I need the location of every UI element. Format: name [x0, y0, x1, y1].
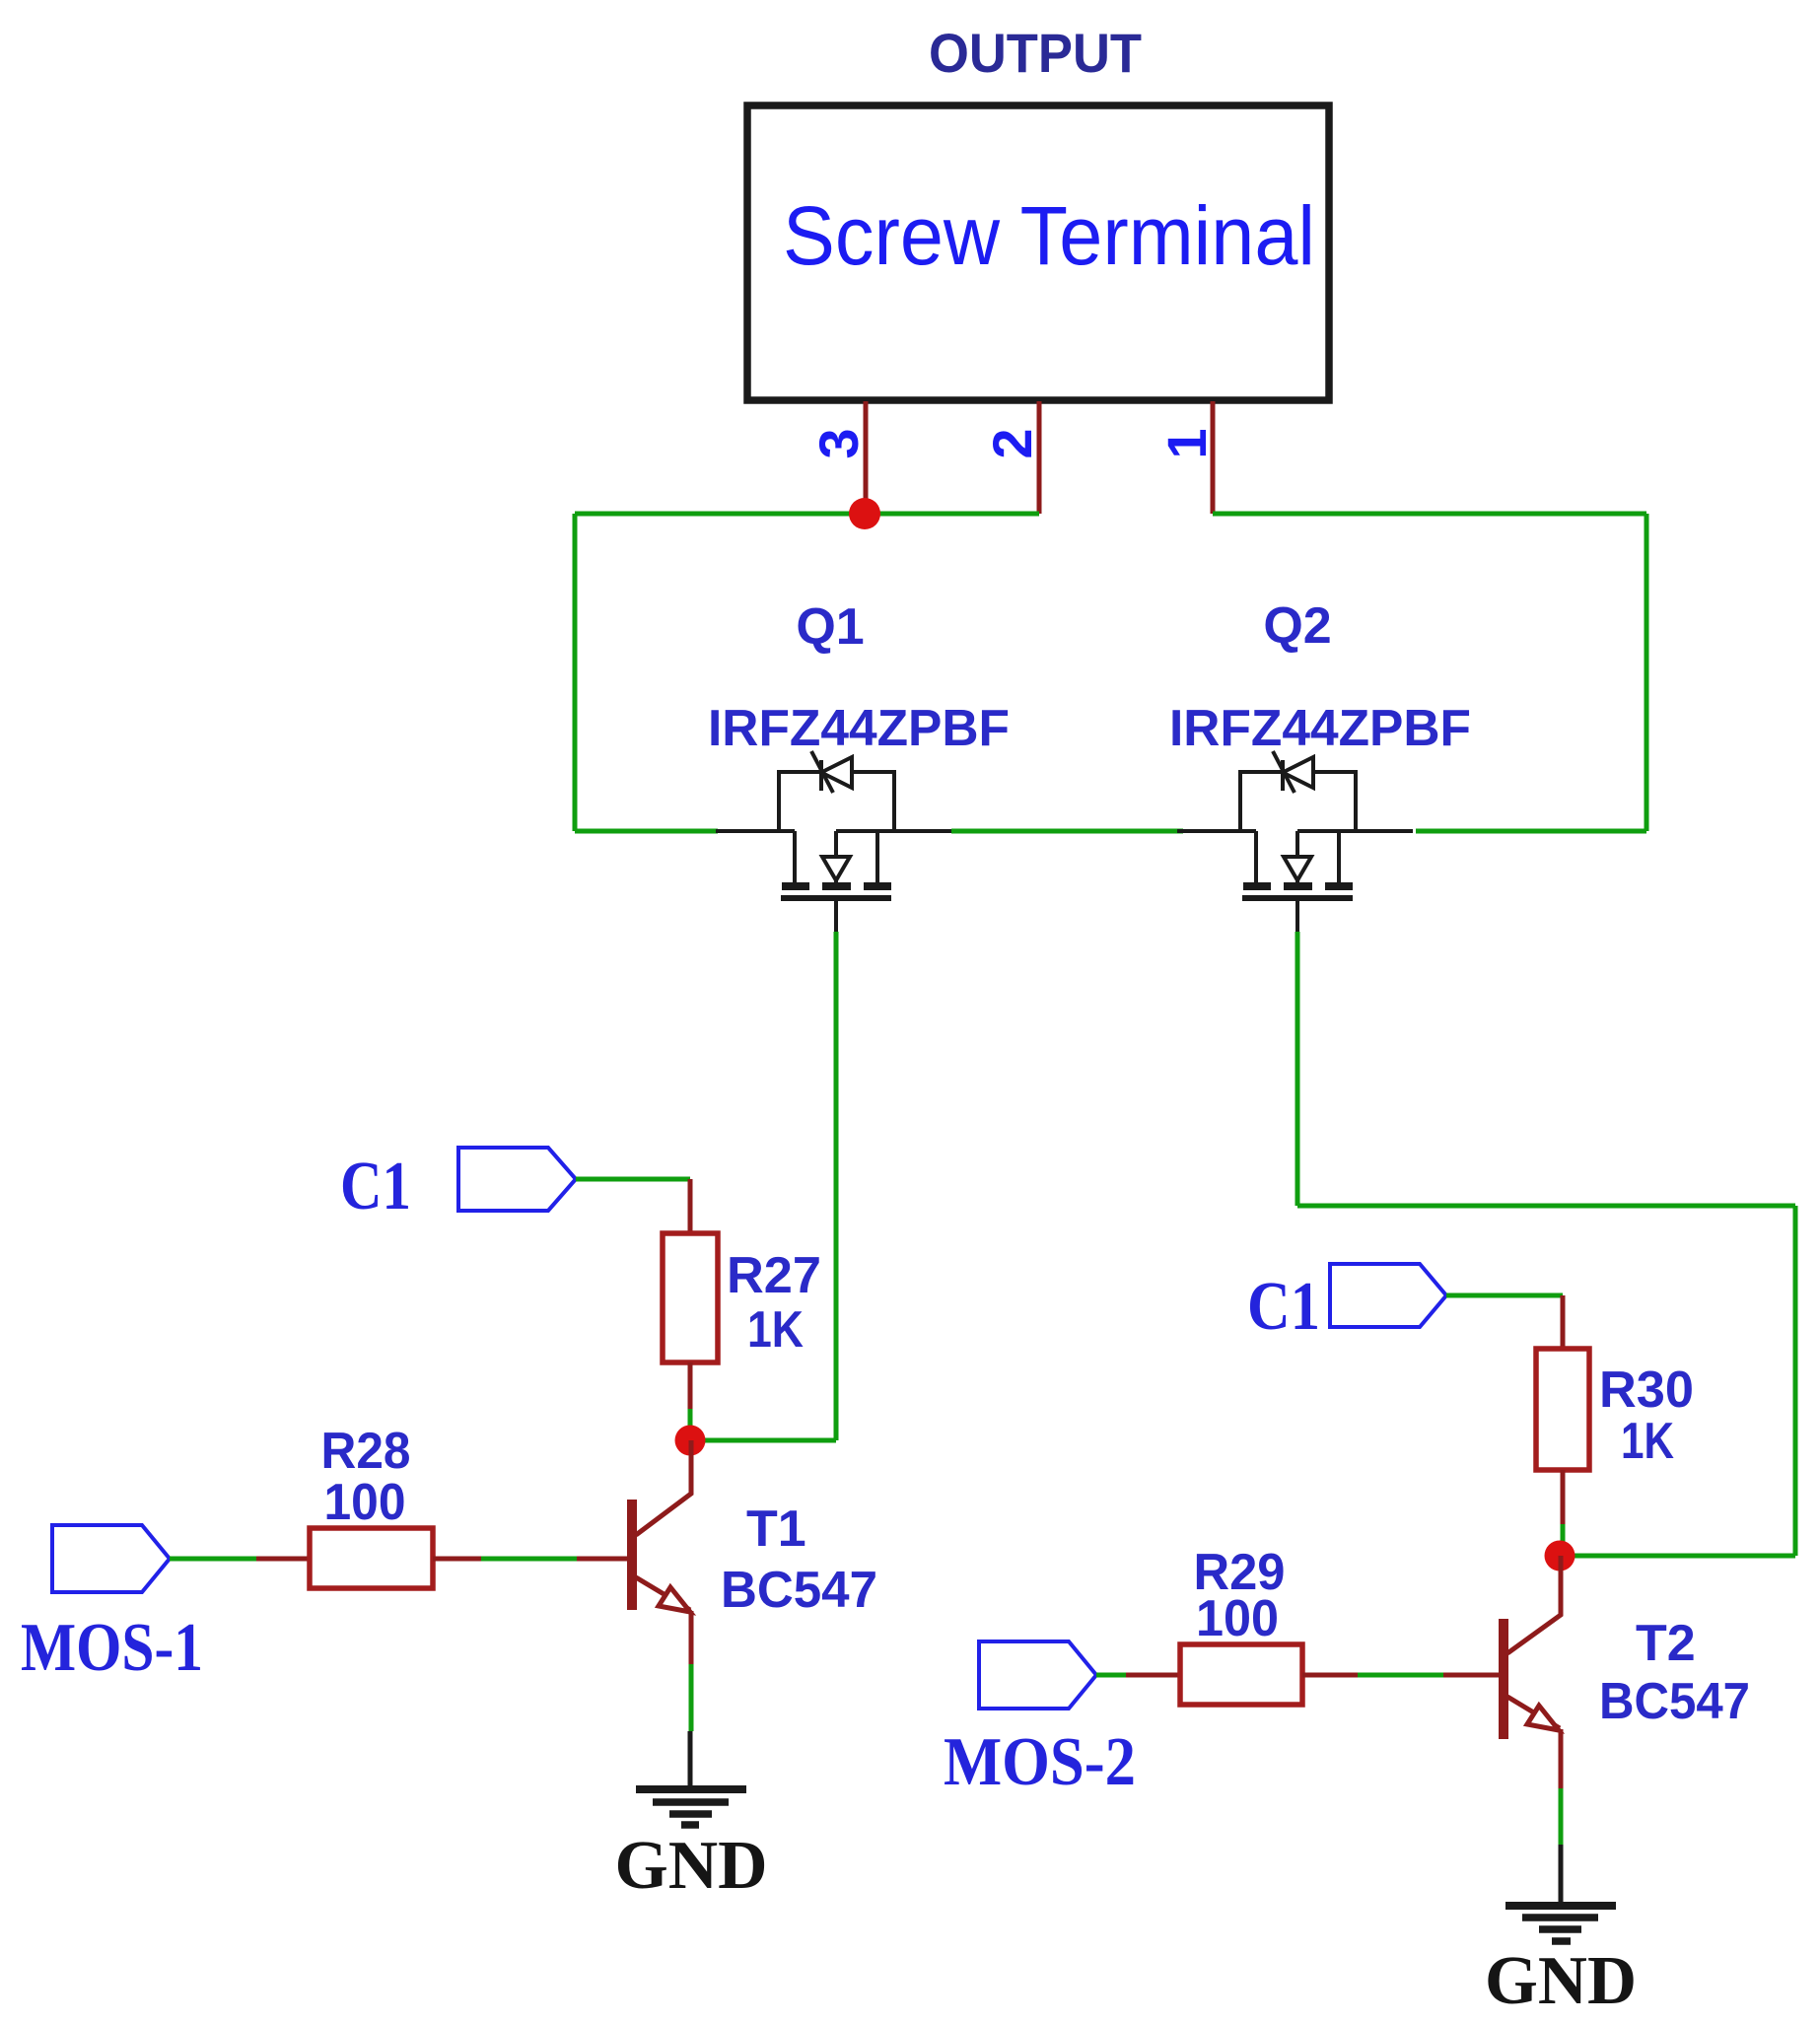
pin 2 wire [1037, 401, 1042, 514]
connector U3 Screw Terminal [747, 105, 1329, 400]
junction dot node B [1545, 1541, 1575, 1571]
svg-text:1K: 1K [747, 1301, 804, 1359]
svg-text:100: 100 [1196, 1590, 1279, 1647]
svg-text:OUTPUT: OUTPUT [929, 22, 1142, 84]
transistor T1 collector [636, 1440, 691, 1535]
wire Q1 gate to node A [834, 932, 839, 1440]
wire R29 to T2 base [1302, 1673, 1358, 1678]
svg-text:BC547: BC547 [721, 1562, 877, 1619]
flag MOS-1 [52, 1525, 170, 1592]
flag C1 right [1330, 1264, 1446, 1327]
svg-text:1K: 1K [1621, 1413, 1674, 1470]
transistor T1 base bar [627, 1500, 637, 1610]
wire T1 emitter to ground [689, 1664, 694, 1731]
ground GND right [1505, 1902, 1616, 1910]
svg-text:MOS-1: MOS-1 [21, 1610, 203, 1686]
mosfet Q1 [716, 751, 951, 932]
flag MOS-2 [979, 1641, 1096, 1709]
wire C1 to R30 [1446, 1293, 1563, 1298]
junction dot pins 2-3 [849, 498, 880, 529]
resistor R27 [663, 1233, 718, 1362]
svg-text:IRFZ44ZPBF: IRFZ44ZPBF [1169, 700, 1471, 757]
pin 1 wire [1211, 401, 1216, 514]
svg-text:GND: GND [1485, 1943, 1637, 2019]
svg-text:100: 100 [324, 1474, 406, 1531]
transistor T1 emitter [636, 1577, 690, 1610]
wire MOS-2 to R29 [1096, 1673, 1126, 1678]
ground GND left [636, 1785, 746, 1793]
resistor R28 [310, 1528, 433, 1588]
wire net pins2-3 to Q1 drain [575, 512, 1039, 517]
transistor T2 collector [1507, 1556, 1561, 1653]
resistor R30 [1536, 1349, 1589, 1470]
mosfet Q2 [1177, 751, 1413, 932]
svg-text:R28: R28 [321, 1423, 411, 1480]
svg-text:2: 2 [981, 428, 1043, 458]
wire Q1 source to Q2 drain [951, 829, 1183, 834]
wire pin1 to Q2 source [1213, 512, 1646, 517]
svg-text:C1: C1 [1247, 1269, 1320, 1345]
wire T2 emitter to ground [1559, 1788, 1564, 1845]
wire Q2 gate to node B [1295, 932, 1300, 1206]
wire R27 to node A [688, 1362, 693, 1409]
svg-text:MOS-2: MOS-2 [944, 1724, 1136, 1800]
svg-text:Q1: Q1 [796, 598, 864, 656]
junction dot node A [675, 1426, 706, 1456]
wire R28 to T1 base [433, 1557, 481, 1562]
svg-text:1: 1 [1155, 428, 1218, 458]
svg-text:R27: R27 [727, 1247, 821, 1304]
wire C1 to R27 [576, 1177, 690, 1182]
svg-text:T2: T2 [1636, 1615, 1696, 1672]
svg-text:Q2: Q2 [1263, 597, 1331, 655]
wire R30 to node B [1561, 1470, 1566, 1524]
transistor T2 emitter [1507, 1697, 1560, 1728]
flag C1 left [458, 1148, 576, 1211]
svg-text:GND: GND [615, 1828, 768, 1904]
svg-text:3: 3 [807, 428, 870, 458]
resistor R29 [1180, 1644, 1302, 1705]
pin 3 wire [864, 401, 869, 514]
svg-text:C1: C1 [340, 1149, 411, 1224]
svg-text:T1: T1 [746, 1501, 806, 1558]
wire MOS-1 to R28 [170, 1557, 256, 1562]
svg-text:Screw Terminal: Screw Terminal [783, 189, 1315, 282]
svg-text:R30: R30 [1599, 1361, 1694, 1419]
transistor T2 base bar [1499, 1619, 1508, 1739]
svg-text:BC547: BC547 [1599, 1673, 1750, 1730]
svg-text:IRFZ44ZPBF: IRFZ44ZPBF [708, 700, 1010, 757]
